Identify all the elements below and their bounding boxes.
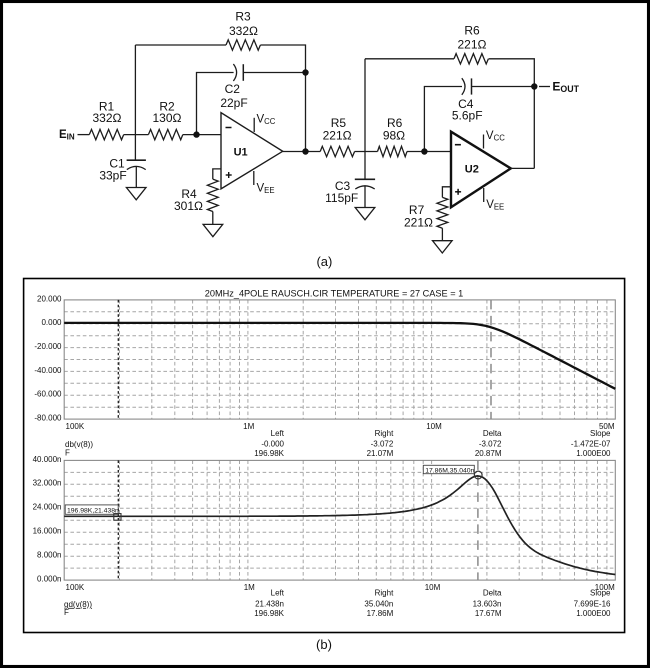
pin VCC of U2 [483, 135, 485, 149]
plot2 frame [64, 460, 615, 580]
svg-text:24.000n: 24.000n [33, 503, 62, 512]
resistor R3 332ohm [226, 40, 260, 50]
plot1 left cursor line 196.98K [117, 300, 119, 419]
svg-text:0.000n: 0.000n [37, 575, 61, 584]
svg-text:17.86M: 17.86M [367, 609, 394, 618]
svg-text:F: F [64, 608, 69, 617]
op-amp U2 [451, 132, 511, 208]
plot2 cursor readout table [64, 589, 611, 618]
wire U1 output to R5 [283, 151, 321, 153]
ground below C3 [355, 208, 375, 220]
svg-text:F: F [65, 448, 70, 457]
svg-text:332Ω: 332Ω [229, 24, 258, 38]
svg-text:R3: R3 [235, 10, 251, 24]
svg-text:10M: 10M [425, 583, 441, 592]
svg-text:100K: 100K [66, 422, 85, 431]
resistor R6 98ohm [378, 146, 408, 156]
svg-text:20.000: 20.000 [37, 294, 62, 303]
plot2 x-axis labels [66, 583, 616, 592]
svg-text:35.040n: 35.040n [364, 599, 393, 608]
wire feedback branch / C3 branch vertical [364, 59, 366, 180]
svg-text:17.86M,35.040n: 17.86M,35.040n [425, 467, 474, 474]
chart panel border [24, 279, 625, 633]
callout left cursor value box [65, 505, 118, 514]
svg-text:-20.000: -20.000 [34, 342, 62, 351]
svg-text:21.438n: 21.438n [255, 599, 284, 608]
svg-text:U1: U1 [234, 146, 248, 158]
svg-text:8.000n: 8.000n [37, 551, 61, 560]
svg-text:1.000E00: 1.000E00 [576, 609, 611, 618]
node junction R1/R2/C1/R3 [134, 45, 136, 160]
svg-text:1M: 1M [244, 583, 255, 592]
wire C2 branch from inverting node [197, 73, 234, 135]
wire R6 to U2 inverting input [407, 151, 451, 153]
svg-text:U2: U2 [465, 164, 479, 176]
capacitor C4 5.6pF [462, 78, 465, 95]
svg-text:Left: Left [271, 589, 285, 598]
svg-text:22pF: 22pF [220, 96, 247, 110]
resistor R4 301ohm [213, 169, 221, 179]
wire E_IN to R1 [78, 134, 90, 136]
svg-text:33pF: 33pF [99, 168, 126, 182]
resistor R6 221ohm (feedback) [454, 54, 488, 64]
svg-text:32.000n: 32.000n [33, 479, 62, 488]
marker circle on curve at peak [474, 471, 482, 479]
wire C4 branch [424, 87, 462, 152]
svg-text:-3.072: -3.072 [479, 439, 502, 448]
capacitor C1 33pF [127, 159, 146, 161]
svg-text:(a): (a) [316, 254, 332, 269]
node EOUT (output net label) [539, 86, 550, 88]
svg-text:Right: Right [375, 429, 394, 438]
curve db(v(8)) magnitude response [64, 323, 615, 389]
svg-text:221Ω: 221Ω [404, 215, 433, 229]
plot1 y-axis labels [34, 294, 62, 422]
svg-text:-1.472E-07: -1.472E-07 [571, 439, 611, 448]
wire R6 feedback to output vertical [489, 59, 535, 169]
wire U2 output [511, 167, 535, 169]
marker square on curve at left cursor [114, 514, 121, 521]
pin VEE of U2 [483, 188, 485, 202]
node dot U2 inverting input [421, 148, 427, 154]
svg-text:98Ω: 98Ω [383, 129, 405, 143]
capacitor C2 22pF [233, 64, 236, 81]
svg-text:-80.000: -80.000 [34, 414, 62, 423]
svg-text:-60.000: -60.000 [34, 390, 62, 399]
plot1 right cursor line 21.07M [490, 300, 492, 419]
resistor R7 221ohm [442, 187, 451, 198]
ground below R7 [433, 241, 453, 253]
wire R3 top feedback [135, 44, 226, 46]
curve gd(v(8)) group delay [64, 476, 615, 575]
resistor R1 332ohm [89, 129, 123, 139]
svg-text:Slope: Slope [590, 589, 611, 598]
callout peak value box [423, 465, 474, 473]
wire R3 to output node [260, 45, 305, 152]
plot2 y-axis labels [33, 455, 62, 584]
svg-text:301Ω: 301Ω [174, 199, 203, 213]
op-amp U1 [221, 113, 283, 189]
svg-text:Delta: Delta [483, 429, 502, 438]
svg-text:Right: Right [375, 589, 394, 598]
svg-text:-0.000: -0.000 [261, 439, 284, 448]
plot1 cursor readout table [65, 429, 611, 458]
wire R5 to R6 [355, 151, 378, 153]
svg-text:Left: Left [271, 429, 285, 438]
svg-text:40.000n: 40.000n [33, 455, 62, 464]
plot2 left cursor line 196.98K [117, 460, 119, 580]
svg-text:221Ω: 221Ω [323, 129, 352, 143]
node dot EOUT [531, 83, 537, 89]
svg-text:17.67M: 17.67M [475, 609, 502, 618]
node dot C2/R3 junction [302, 69, 308, 75]
pin VCC of U1 [253, 118, 255, 132]
svg-text:Delta: Delta [483, 589, 502, 598]
svg-text:C2: C2 [225, 82, 241, 96]
svg-text:221Ω: 221Ω [458, 38, 487, 52]
svg-text:(b): (b) [316, 637, 332, 652]
grid plot2 [64, 460, 615, 580]
ground below R4 [203, 224, 223, 236]
wire R2 to U1 inverting input [183, 134, 221, 136]
node dot U1 inverting input [193, 131, 199, 137]
pin VEE of U1 [253, 171, 255, 185]
plot1 x-axis labels [66, 422, 615, 431]
svg-text:20.87M: 20.87M [475, 449, 502, 458]
svg-text:0.000: 0.000 [41, 318, 62, 327]
node dot U1 output [302, 148, 308, 154]
capacitor C3 115pF [355, 178, 375, 180]
svg-text:1.000E00: 1.000E00 [576, 449, 611, 458]
grid plot1 [64, 300, 615, 419]
svg-text:332Ω: 332Ω [93, 111, 122, 125]
svg-text:130Ω: 130Ω [153, 111, 182, 125]
svg-text:196.98K: 196.98K [254, 449, 284, 458]
svg-text:115pF: 115pF [325, 191, 358, 205]
svg-text:21.07M: 21.07M [367, 449, 394, 458]
svg-text:R6: R6 [464, 24, 480, 38]
svg-text:100K: 100K [66, 583, 85, 592]
svg-text:196.98K,21.438n: 196.98K,21.438n [67, 507, 119, 514]
svg-text:16.000n: 16.000n [33, 527, 62, 536]
svg-text:-3.072: -3.072 [371, 439, 394, 448]
wire R1 to junction to R2 [124, 134, 149, 136]
plot2 right cursor line 17.86M [477, 460, 479, 580]
plot1 frame [64, 300, 615, 419]
svg-text:20MHz_4POLE RAUSCH.CIR TEMPERA: 20MHz_4POLE RAUSCH.CIR TEMPERATURE = 27 … [205, 288, 464, 298]
svg-text:5.6pF: 5.6pF [452, 108, 483, 122]
svg-text:1M: 1M [243, 422, 254, 431]
svg-text:13.603n: 13.603n [473, 599, 502, 608]
svg-text:-40.000: -40.000 [34, 366, 62, 375]
svg-text:10M: 10M [426, 422, 442, 431]
wire top feedback to R6 [365, 58, 454, 60]
resistor R2 130ohm [148, 129, 182, 139]
svg-text:7.699E-16: 7.699E-16 [574, 599, 611, 608]
ground below C1 [126, 188, 146, 200]
svg-text:Slope: Slope [590, 429, 611, 438]
resistor R5 221ohm [320, 146, 354, 156]
svg-text:196.98K: 196.98K [254, 609, 284, 618]
